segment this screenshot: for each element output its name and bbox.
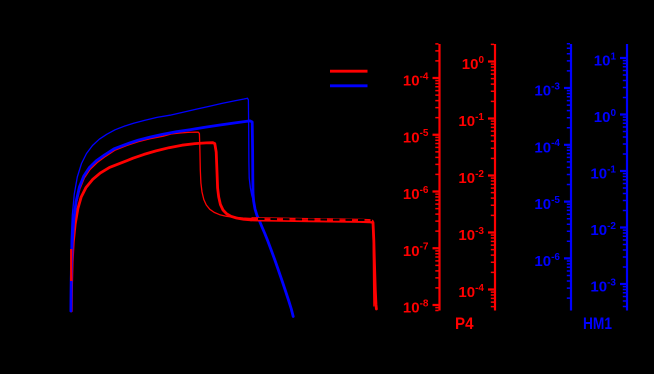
- legend line blue: [330, 84, 368, 87]
- P4 right (red) axis line: [494, 44, 496, 311]
- svg-text:HM1: HM1: [583, 315, 612, 333]
- curve thin blue (run 1) rise, peak and drop: [70, 98, 253, 311]
- HM1 right (blue) axis line: [626, 44, 628, 311]
- curve thick blue (run 2) rise, drop and S-tail: [71, 121, 293, 317]
- svg-text:P4: P4: [455, 315, 474, 333]
- HM1 right (blue) minor ticks: [623, 61, 626, 307]
- curve thin red shelf and final drop: [252, 218, 374, 306]
- HM1 left (blue) major ticks: [564, 88, 570, 258]
- P4 right (red) major ticks: [488, 62, 494, 290]
- black dashed overlay on red shelf: [258, 219, 372, 220]
- P4 left (red) major ticks: [433, 78, 439, 305]
- curve thick red shelf and final drop: [251, 220, 376, 309]
- HM1 right (blue) major ticks: [620, 58, 626, 284]
- P4 right (red) minor ticks: [491, 44, 494, 306]
- curve thin red (run 1) rise, knee and drop: [71, 132, 252, 305]
- P4 left (red) minor ticks: [435, 44, 438, 311]
- red trunk overlay: [70, 249, 72, 281]
- HM1 left (blue) axis line: [570, 44, 572, 311]
- curve thick red (run 2) rise, knee and drop: [71, 143, 251, 311]
- HM1 left (blue) minor ticks: [567, 44, 570, 298]
- P4 left (red) axis line: [438, 44, 440, 311]
- legend line red: [330, 70, 368, 73]
